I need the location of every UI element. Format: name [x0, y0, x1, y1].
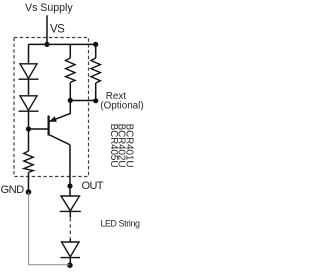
svg-text:BCR405U: BCR405U: [108, 124, 119, 168]
wire Rext bottom lead: [95, 83, 97, 101]
LED diode D4: [61, 242, 81, 258]
resistor R1 internal: [66, 58, 75, 82]
wire collector to OUT: [69, 145, 71, 186]
wire base: [29, 128, 48, 130]
svg-text:VS: VS: [50, 24, 65, 36]
wire LED1 cathode: [69, 211, 71, 217]
wire Rs to GND: [28, 172, 30, 192]
wire top rail: [29, 43, 96, 45]
wire base node to Rs: [28, 129, 30, 151]
wire left branch upper: [28, 44, 30, 63]
resistor Rext: [91, 58, 100, 83]
transistor Q1: [49, 100, 71, 144]
wire return path GND to LED string: [29, 192, 70, 265]
wire emitter node to Rext: [70, 100, 95, 102]
svg-text:Vs Supply: Vs Supply: [25, 2, 73, 14]
junction Rext top dot: [93, 42, 98, 47]
diode D2: [19, 96, 39, 111]
diode D1: [19, 64, 39, 79]
junction LED string bottom dot: [67, 262, 73, 268]
svg-text:OUT: OUT: [82, 180, 104, 192]
resistor Rs internal: [24, 151, 33, 172]
wire OUT to LED1: [69, 186, 71, 196]
device outline dashed box: [14, 38, 89, 177]
wire diode to base node: [28, 111, 30, 129]
junction VS dot: [44, 42, 49, 47]
wire Rext top lead: [95, 44, 97, 58]
junction emitter node dot: [68, 98, 73, 103]
wire internal resistor top lead: [69, 44, 71, 58]
svg-text:GND: GND: [1, 184, 25, 196]
svg-text:(Optional): (Optional): [100, 101, 143, 112]
junction base node dot: [26, 126, 31, 131]
wire LED2 anode: [69, 239, 71, 242]
junction Rext bottom dot: [93, 98, 98, 103]
LED diode D3: [60, 196, 81, 211]
junction OUT dot: [67, 183, 72, 188]
wire VS supply lead: [46, 15, 48, 44]
wire LED2 cathode: [69, 258, 71, 265]
wire internal resistor bottom lead: [69, 82, 71, 100]
wire LED string dashed continuation: [69, 218, 71, 239]
junction GND dot: [26, 189, 32, 195]
svg-text:LED String: LED String: [101, 219, 140, 229]
wire between diodes: [28, 79, 30, 96]
